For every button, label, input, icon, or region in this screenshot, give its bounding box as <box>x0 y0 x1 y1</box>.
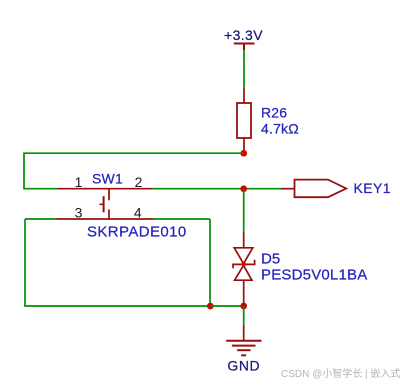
svg-text:3: 3 <box>75 204 83 220</box>
wire lower loop right side <box>209 219 211 306</box>
wire key row down to diode <box>243 189 245 232</box>
wire segment into port <box>281 188 295 190</box>
svg-text:SKRPADE010: SKRPADE010 <box>87 224 187 241</box>
wire pin1 to pin2 lead of SW1 <box>58 188 153 190</box>
node junction bottom gnd <box>240 303 247 310</box>
svg-text:SW1: SW1 <box>92 170 123 186</box>
svg-text:1: 1 <box>75 174 83 190</box>
svg-text:CSDN @小智学长 | 嵌入式: CSDN @小智学长 | 嵌入式 <box>281 367 400 380</box>
port KEY1 <box>295 180 347 198</box>
wire pin3 lead left green <box>25 218 56 220</box>
switch SW1 body <box>100 189 110 219</box>
node junction below resistor <box>240 150 247 157</box>
svg-text:+3.3V: +3.3V <box>224 27 263 43</box>
wire power to resistor <box>243 50 245 88</box>
node junction on KEY1 row <box>240 185 247 192</box>
wire bottom junction to gnd node <box>210 305 243 307</box>
wire pin3 to pin4 lead of SW1 <box>56 218 153 220</box>
svg-text:PESD5V0L1BA: PESD5V0L1BA <box>261 266 367 283</box>
svg-text:KEY1: KEY1 <box>354 180 391 196</box>
power symbol +3.3V bar <box>234 43 255 50</box>
svg-text:2: 2 <box>135 174 143 190</box>
svg-text:R26: R26 <box>261 105 287 121</box>
wire pin4 lead right green <box>154 218 210 220</box>
svg-text:GND: GND <box>227 358 260 374</box>
wire lower loop left/bottom <box>25 219 210 306</box>
resistor R26 <box>237 88 251 154</box>
svg-text:D5: D5 <box>261 250 280 267</box>
diode D5 TVS <box>233 232 255 306</box>
node junction bottom left <box>207 303 214 310</box>
ground symbol <box>226 325 261 356</box>
svg-text:4: 4 <box>134 204 142 220</box>
wire gnd node down <box>243 306 245 325</box>
wire junction left and down to switch row <box>24 153 244 189</box>
svg-text:4.7kΩ: 4.7kΩ <box>261 121 299 137</box>
wire pin2 to KEY1 port <box>153 188 282 190</box>
